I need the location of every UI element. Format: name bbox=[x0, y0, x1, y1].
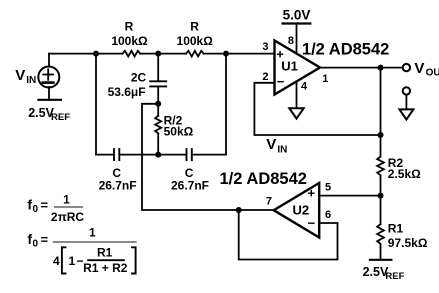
node U2 output junction bbox=[236, 207, 242, 213]
wire between resistors bbox=[140, 53, 186, 55]
ground probe bbox=[399, 109, 413, 119]
op-amp U2 bbox=[274, 183, 320, 238]
node cap junction bbox=[155, 152, 161, 158]
wire cap row mid bbox=[120, 154, 185, 156]
node VOUT junction bbox=[378, 65, 384, 71]
wire bootstrap to U2 output bbox=[142, 104, 274, 210]
resistor R/2 50k ohm bbox=[155, 116, 161, 134]
svg-text:2πRC: 2πRC bbox=[51, 210, 85, 224]
node B bbox=[155, 51, 161, 57]
svg-text:1/2 AD8542: 1/2 AD8542 bbox=[220, 170, 307, 188]
ground U1 pin4 bbox=[289, 108, 303, 118]
svg-text:IN: IN bbox=[26, 75, 36, 86]
svg-text:=: = bbox=[41, 198, 49, 213]
svg-text:1: 1 bbox=[63, 193, 70, 207]
svg-text:R1: R1 bbox=[97, 245, 113, 259]
formula f0=1/2piRC bbox=[27, 193, 84, 225]
svg-text:R1 + R2: R1 + R2 bbox=[83, 261, 128, 275]
svg-text:OUT: OUT bbox=[426, 68, 439, 79]
svg-text:2C: 2C bbox=[131, 71, 147, 85]
svg-text:7: 7 bbox=[266, 195, 272, 207]
wire right rail mid bbox=[380, 178, 382, 225]
wire U1 pin2 feedback bbox=[254, 83, 380, 135]
svg-text:0: 0 bbox=[33, 239, 39, 250]
resistor R1 97.5k ohm bbox=[377, 224, 384, 246]
node divider junction bbox=[378, 193, 384, 199]
svg-text:REF: REF bbox=[51, 112, 70, 123]
wire cap row right bbox=[193, 154, 226, 156]
svg-text:V: V bbox=[15, 67, 25, 84]
svg-text:26.7nF: 26.7nF bbox=[99, 179, 137, 193]
svg-text:R: R bbox=[125, 20, 134, 34]
svg-text:50kΩ: 50kΩ bbox=[164, 124, 194, 138]
svg-text:2: 2 bbox=[262, 71, 268, 83]
svg-text:U1: U1 bbox=[281, 59, 298, 74]
svg-text:2.5kΩ: 2.5kΩ bbox=[388, 167, 421, 181]
resistor R2 2.5k ohm bbox=[377, 157, 384, 178]
svg-text:1/2 AD8542: 1/2 AD8542 bbox=[302, 41, 389, 59]
svg-text:−: − bbox=[277, 74, 285, 89]
svg-text:IN: IN bbox=[277, 144, 287, 155]
capacitor C 26.7nF (left) bbox=[113, 149, 115, 160]
svg-text:1: 1 bbox=[322, 73, 328, 85]
wire U2 pin5 bbox=[319, 195, 380, 197]
ground bar 2.5VREF right bbox=[370, 259, 391, 261]
svg-text:3: 3 bbox=[262, 41, 268, 53]
capacitor 2C 53.6uF bbox=[157, 54, 159, 81]
svg-text:U2: U2 bbox=[293, 203, 310, 218]
svg-text:R1: R1 bbox=[388, 221, 404, 235]
svg-text:−: − bbox=[308, 216, 316, 231]
wire U1 pin4 bbox=[296, 82, 298, 108]
wire U1 output bbox=[320, 67, 403, 69]
resistor R 100k ohm (left) bbox=[123, 51, 141, 57]
svg-text:5.0V: 5.0V bbox=[283, 8, 311, 23]
svg-text:4: 4 bbox=[301, 80, 308, 92]
wire right rail upper bbox=[380, 68, 382, 157]
svg-text:1: 1 bbox=[69, 254, 76, 268]
wire U1 pin8 5.0V bbox=[296, 24, 298, 54]
svg-text:100kΩ: 100kΩ bbox=[177, 34, 214, 48]
svg-text:8: 8 bbox=[288, 35, 294, 47]
svg-text:=: = bbox=[41, 232, 49, 247]
source VIN bbox=[48, 54, 50, 66]
wire U2 pin6 feedback bbox=[239, 210, 338, 260]
node feedback junction bbox=[378, 132, 384, 138]
formula f0 second bbox=[27, 226, 136, 276]
svg-text:0: 0 bbox=[33, 204, 39, 215]
node A bbox=[93, 51, 99, 57]
resistor R 100k ohm (right) bbox=[186, 51, 204, 57]
svg-text:R: R bbox=[190, 20, 199, 34]
wire cap row left bbox=[96, 154, 113, 156]
svg-text:4: 4 bbox=[53, 254, 60, 268]
svg-text:26.7nF: 26.7nF bbox=[171, 179, 209, 193]
wire to U1 pin3 bbox=[204, 53, 275, 55]
svg-text:5: 5 bbox=[325, 182, 331, 194]
wire right rail lower bbox=[380, 246, 382, 259]
wire probe bbox=[405, 95, 407, 109]
node C bbox=[223, 51, 229, 57]
wire top rail bbox=[49, 53, 123, 55]
svg-text:+: + bbox=[308, 186, 316, 201]
wire node C vertical bbox=[225, 54, 227, 155]
svg-text:V: V bbox=[414, 60, 424, 77]
svg-text:V: V bbox=[266, 136, 276, 153]
svg-text:100kΩ: 100kΩ bbox=[111, 34, 148, 48]
wire node A vertical bbox=[95, 54, 97, 155]
ground bar 2.5VREF left bbox=[48, 87, 50, 100]
svg-text:1: 1 bbox=[89, 226, 96, 240]
op-amp U1 bbox=[275, 41, 321, 95]
capacitor C 26.7nF (right) bbox=[186, 149, 188, 160]
node bootstrap junction bbox=[155, 101, 161, 107]
svg-text:REF: REF bbox=[385, 271, 404, 282]
svg-text:53.6μF: 53.6μF bbox=[108, 85, 146, 99]
svg-text:6: 6 bbox=[325, 209, 331, 221]
probe circle bbox=[403, 87, 410, 94]
terminal VOUT bbox=[403, 64, 410, 71]
svg-text:97.5kΩ: 97.5kΩ bbox=[388, 236, 428, 250]
